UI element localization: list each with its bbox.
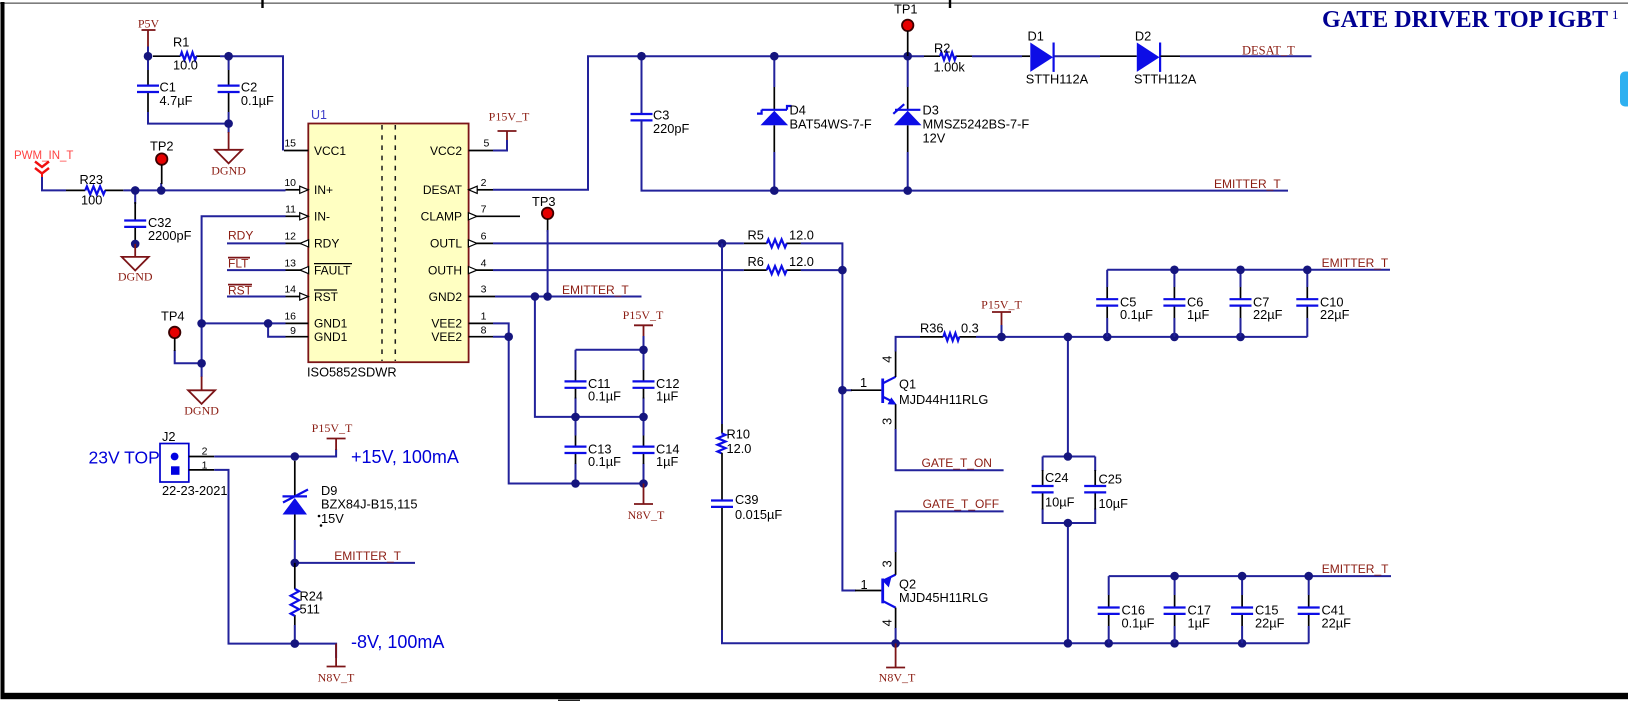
svg-text:0.1µF: 0.1µF — [1122, 616, 1155, 631]
svg-text:R36: R36 — [920, 321, 943, 336]
capacitor C10 22uF — [1296, 287, 1349, 322]
junction R5/R6 join — [838, 266, 847, 275]
svg-text:OUTL: OUTL — [430, 237, 462, 251]
svg-text:FAULT: FAULT — [314, 263, 351, 277]
svg-text:511: 511 — [300, 602, 320, 617]
svg-text:GATE DRIVER TOP IGBT: GATE DRIVER TOP IGBT — [1322, 7, 1608, 33]
wire P5V net — [148, 47, 283, 151]
svg-text:GATE_T_OFF: GATE_T_OFF — [923, 497, 999, 511]
svg-text:IN+: IN+ — [314, 183, 333, 197]
svg-text:EMITTER_T: EMITTER_T — [1322, 256, 1389, 270]
svg-text:7: 7 — [481, 204, 487, 216]
junction bottom rail C13 — [571, 479, 580, 488]
U1 pin 6 OUTL — [430, 231, 493, 251]
svg-text:10.0: 10.0 — [173, 58, 198, 73]
svg-text:0.1µF: 0.1µF — [241, 93, 274, 108]
svg-text:GND2: GND2 — [429, 290, 463, 304]
ground DGND under TP4 — [184, 377, 219, 418]
svg-text:DGND: DGND — [184, 404, 219, 418]
svg-text:P15V_T: P15V_T — [312, 421, 353, 435]
wire C11-C14 mid rail — [576, 417, 644, 484]
svg-text:220pF: 220pF — [653, 121, 689, 136]
svg-text:RDY: RDY — [314, 237, 339, 251]
svg-text:0.1µF: 0.1µF — [1120, 307, 1153, 322]
svg-text:J2: J2 — [162, 429, 176, 444]
wire Q1 emitter GATE_T_ON — [896, 429, 1004, 470]
svg-text:4: 4 — [880, 619, 895, 626]
svg-text:12: 12 — [284, 231, 296, 243]
resistor R36 0.3 — [920, 321, 979, 341]
svg-text:1: 1 — [1612, 7, 1619, 22]
wire IN-/GND1 net — [175, 216, 286, 377]
junction DESAT at D4 — [770, 52, 779, 61]
svg-text:3: 3 — [481, 284, 487, 296]
junction DESAT at C3 — [637, 52, 646, 61]
resistor R24 511 — [291, 563, 323, 625]
junction top bank C7 — [1236, 266, 1245, 275]
svg-text:11: 11 — [285, 204, 296, 216]
svg-text:1µF: 1µF — [656, 389, 678, 404]
wire GND2 EMITTER_T local — [495, 230, 642, 417]
capacitor C3 220pF — [631, 108, 690, 137]
svg-text:2: 2 — [202, 446, 208, 458]
svg-text:2200pF: 2200pF — [148, 228, 192, 243]
testpoint TP1 — [894, 2, 917, 57]
junction N8V at R24 — [291, 639, 300, 648]
svg-text:14: 14 — [284, 284, 296, 296]
wire D9 to EMITTER_T — [295, 540, 415, 563]
svg-text:5: 5 — [484, 138, 490, 150]
svg-text:1: 1 — [860, 375, 867, 390]
wire EMITTER_T rail top — [642, 120, 1289, 190]
svg-text:4.7µF: 4.7µF — [160, 93, 193, 108]
resistor R10 12.0 — [718, 424, 752, 456]
svg-text:R1: R1 — [173, 35, 189, 50]
capacitor C11 0.1uF — [565, 370, 622, 404]
diode D1 STTH112A — [1022, 29, 1089, 87]
J2 pin 2 — [189, 446, 214, 458]
junction P5V at C2/R1 — [224, 52, 233, 61]
svg-text:12.0: 12.0 — [789, 227, 814, 242]
U1 pin 14 RST — [284, 284, 338, 304]
power P15V_T at J2 — [312, 421, 353, 450]
svg-text:4: 4 — [880, 356, 895, 363]
svg-text:MJD45H11RLG: MJD45H11RLG — [899, 590, 988, 605]
svg-text:2: 2 — [481, 177, 487, 189]
junction OUTL at R10 — [718, 239, 727, 248]
svg-text:15: 15 — [284, 138, 296, 150]
wire C13-C14 bottom rail — [576, 483, 644, 485]
wire Q2 emitter — [895, 628, 897, 643]
net label FLT — [227, 256, 286, 270]
svg-text:RST: RST — [314, 290, 339, 304]
capacitor C1 4.7uF — [137, 70, 193, 112]
port PWM_IN_T — [14, 150, 73, 177]
testpoint TP2 — [150, 139, 173, 185]
svg-text:TP2: TP2 — [150, 139, 173, 154]
svg-text:GND1: GND1 — [314, 317, 348, 331]
junction Q1 base — [838, 386, 847, 395]
junction bottom bank C15 — [1238, 572, 1247, 581]
svg-text:22µF: 22µF — [1320, 307, 1350, 322]
svg-text:DGND: DGND — [211, 164, 246, 178]
svg-text:1µF: 1µF — [1188, 616, 1210, 631]
svg-text:C39: C39 — [735, 492, 758, 507]
junction rail at C15 — [1238, 639, 1247, 648]
svg-text:+15V, 100mA: +15V, 100mA — [351, 447, 459, 467]
wire DESAT net — [493, 56, 1312, 190]
svg-text:6: 6 — [481, 231, 487, 243]
junction EMITTER at D9/R24 — [291, 559, 300, 568]
U1 pin 7 CLAMP — [421, 204, 520, 224]
svg-text:Q1: Q1 — [899, 377, 916, 392]
svg-text:BZX84J-B15,115: BZX84J-B15,115 — [321, 497, 418, 512]
svg-text:RDY: RDY — [228, 229, 253, 243]
svg-text:IN-: IN- — [314, 210, 330, 224]
junction top bank C6 — [1170, 266, 1179, 275]
svg-text:P15V_T: P15V_T — [623, 308, 664, 322]
junction mid rail C12 — [639, 413, 648, 422]
svg-text:D3: D3 — [923, 103, 939, 118]
junction P5V at C1 — [144, 52, 153, 61]
U1 pin 9 GND1 — [286, 325, 348, 344]
svg-text:TP3: TP3 — [532, 194, 555, 209]
svg-text:DESAT: DESAT — [423, 183, 463, 197]
resistor R1 10.0 — [153, 35, 220, 73]
U1 pin 16 GND1 — [284, 311, 347, 331]
capacitor C41 22uF — [1298, 595, 1351, 631]
svg-text:16: 16 — [284, 311, 296, 323]
junction C1/C2 bottom — [224, 119, 233, 128]
svg-text:0.3: 0.3 — [961, 321, 979, 336]
svg-text:PWM_IN_T: PWM_IN_T — [14, 150, 73, 162]
svg-text:10µF: 10µF — [1045, 495, 1075, 510]
svg-text:1: 1 — [481, 311, 487, 323]
U1 pin 15 VCC1 — [284, 138, 346, 158]
svg-text:P15V_T: P15V_T — [489, 110, 530, 124]
testpoint TP4 — [161, 309, 184, 352]
power P5V — [138, 17, 160, 48]
svg-text:D4: D4 — [790, 103, 806, 118]
svg-text:STTH112A: STTH112A — [1134, 72, 1197, 87]
svg-text:9: 9 — [290, 325, 296, 337]
transistor Q2 MJD45H11RLG — [855, 552, 988, 629]
junction PWM at C32 — [131, 186, 140, 195]
junction EMITTER at D4 — [770, 186, 779, 195]
wire R10 column — [722, 243, 1309, 643]
U1 pin 13 FAULT — [284, 257, 352, 277]
junction rail at C24 drop — [1064, 333, 1073, 342]
capacitor C12 1uF — [633, 370, 680, 404]
ground DGND under C32 — [118, 240, 153, 284]
svg-text:1: 1 — [861, 577, 868, 592]
diode D2 STTH112A — [1100, 29, 1197, 87]
net label RST — [227, 283, 286, 297]
svg-text:R6: R6 — [748, 254, 764, 269]
junction rail at C6 — [1170, 333, 1179, 342]
junction GND1 pin9 branch — [264, 319, 273, 328]
junction GND2 TP3 — [543, 292, 552, 301]
U1 pin 11 IN- — [285, 204, 330, 224]
junction TP4 join — [197, 359, 206, 368]
wire OUTH net — [493, 270, 856, 590]
U1 pin 5 VCC2 — [430, 138, 493, 158]
svg-text:VEE2: VEE2 — [431, 330, 462, 344]
wire EMITTER_T bottom bank rail — [1109, 576, 1391, 643]
svg-text:STTH112A: STTH112A — [1026, 72, 1089, 87]
svg-text:R23: R23 — [80, 172, 103, 187]
svg-text:10µF: 10µF — [1099, 496, 1129, 511]
U1 pin 8 VEE2 — [431, 324, 493, 344]
diode D4 BAT54WS-7-F schottky — [757, 87, 872, 152]
transistor Q1 MJD44H11RLG — [851, 351, 988, 431]
ic U1 ISO5852SDWR body — [307, 108, 469, 380]
junction bottom bank C17 — [1170, 572, 1179, 581]
U1 pin 1 VEE2 — [431, 311, 493, 331]
wire Q2 collector GATE_T_OFF — [896, 511, 1004, 552]
testpoint TP3 — [532, 194, 555, 232]
wire VEE2 net — [493, 323, 576, 483]
svg-text:MJD44H11RLG: MJD44H11RLG — [899, 392, 988, 407]
svg-text:C25: C25 — [1099, 472, 1122, 487]
diode D9 BZX84J-B15,115 zener — [283, 461, 418, 540]
power P15V_T at VCC2 — [489, 110, 530, 142]
svg-text:1µF: 1µF — [1187, 307, 1209, 322]
wire PWM_IN_T net — [42, 177, 286, 244]
junction mid rail C11 — [571, 413, 580, 422]
svg-text:VCC2: VCC2 — [430, 144, 462, 158]
svg-text:CLAMP: CLAMP — [421, 210, 462, 224]
svg-text:4: 4 — [481, 257, 487, 269]
svg-text:P5V: P5V — [138, 17, 160, 31]
svg-text:DESAT_T: DESAT_T — [1242, 44, 1295, 58]
capacitor C5 0.1uF — [1096, 287, 1153, 322]
svg-text:N8V_T: N8V_T — [879, 671, 916, 685]
wire J2 pin2 P15V net — [214, 449, 336, 457]
capacitor C15 22uF — [1231, 595, 1285, 631]
svg-text:D2: D2 — [1135, 29, 1151, 44]
junction top bank C10 — [1303, 266, 1312, 275]
svg-text:1.00k: 1.00k — [934, 60, 966, 75]
capacitor C32 2200pF — [124, 202, 191, 243]
connector J2 22-23-2021 — [160, 429, 227, 498]
wire C24/C25 block — [1043, 457, 1096, 644]
resistor R2 1.00k — [924, 41, 972, 75]
svg-text:EMITTER_T: EMITTER_T — [1214, 177, 1281, 191]
junction GND2 drop — [531, 292, 540, 301]
wire P15V rail — [976, 325, 1307, 457]
svg-text:DGND: DGND — [118, 270, 153, 284]
junction D9 top — [291, 452, 300, 461]
capacitor C14 1uF — [633, 436, 680, 469]
resistor R23 100 — [66, 172, 123, 208]
capacitor C6 1uF — [1163, 287, 1209, 322]
svg-text:0.1µF: 0.1µF — [588, 389, 621, 404]
junction rail at C7 — [1236, 333, 1245, 342]
U1 pin 12 RDY — [284, 231, 339, 251]
junction C24 top — [1064, 452, 1073, 461]
junction bottom bank C41 — [1304, 572, 1313, 581]
capacitor C2 0.1uF — [218, 70, 274, 112]
svg-text:N8V_T: N8V_T — [628, 508, 665, 522]
resistor R5 12.0 — [744, 227, 814, 247]
svg-text:23V TOP: 23V TOP — [89, 448, 160, 468]
junction GND1 left — [197, 319, 206, 328]
wire Q1 collector — [896, 337, 920, 352]
svg-text:12.0: 12.0 — [727, 441, 752, 456]
svg-text:TP1: TP1 — [894, 2, 917, 17]
junction DESAT at D3/TP1 — [903, 52, 912, 61]
J2 pin 1 — [189, 459, 214, 471]
svg-text:D1: D1 — [1028, 29, 1044, 44]
capacitor C39 0.015uF — [711, 453, 782, 630]
svg-text:3: 3 — [880, 560, 895, 567]
power P15V_T at C12 — [623, 308, 664, 337]
capacitor C7 22uF — [1230, 287, 1283, 322]
svg-text:15V: 15V — [321, 511, 344, 526]
svg-text:13: 13 — [284, 257, 296, 269]
power P15V_T at R36 — [981, 298, 1022, 327]
svg-text:3: 3 — [880, 418, 895, 425]
svg-text:C24: C24 — [1045, 470, 1068, 485]
svg-text:U1: U1 — [311, 108, 327, 122]
wire OUTL net — [493, 243, 842, 270]
junction VEE2 pins — [504, 332, 513, 341]
wire VCC2 to P15V_T — [493, 140, 507, 151]
svg-text:OUTH: OUTH — [428, 263, 462, 277]
svg-text:VCC1: VCC1 — [314, 144, 346, 158]
svg-text:22µF: 22µF — [1255, 616, 1285, 631]
svg-text:P15V_T: P15V_T — [981, 298, 1022, 312]
diode D3 MMSZ5242BS-7-F zener — [893, 87, 1029, 152]
svg-text:TP4: TP4 — [161, 309, 184, 324]
junction EMITTER at D3 — [903, 186, 912, 195]
capacitor C25 10uF — [1084, 470, 1128, 511]
capacitor C24 10uF — [1032, 470, 1075, 510]
capacitor C13 0.1uF — [565, 436, 622, 469]
net label RDY — [227, 229, 286, 244]
svg-text:8: 8 — [481, 324, 487, 336]
wire EMITTER_T top bank rail — [1107, 270, 1390, 337]
svg-text:GATE_T_ON: GATE_T_ON — [922, 456, 992, 470]
svg-text:0.1µF: 0.1µF — [588, 454, 621, 469]
svg-text:R10: R10 — [727, 427, 750, 442]
svg-text:EMITTER_T: EMITTER_T — [334, 549, 401, 563]
junction rail at C5 — [1103, 333, 1112, 342]
ground DGND under C2 — [211, 132, 246, 178]
power N8V_T at J2 — [318, 644, 355, 685]
svg-text:22µF: 22µF — [1322, 616, 1352, 631]
U1 pin 10 IN+ — [284, 177, 333, 197]
U1 pin 2 DESAT — [423, 177, 493, 197]
resistor R6 12.0 — [744, 254, 814, 274]
svg-text:10: 10 — [284, 177, 296, 189]
junction C24 bottom — [1064, 519, 1073, 528]
junction Q2 emitter on rail — [891, 639, 900, 648]
capacitor C17 1uF — [1164, 595, 1211, 631]
svg-text:BAT54WS-7-F: BAT54WS-7-F — [790, 117, 872, 132]
svg-text:1µF: 1µF — [656, 454, 678, 469]
svg-text:N8V_T: N8V_T — [318, 671, 355, 685]
svg-text:ISO5852SDWR: ISO5852SDWR — [307, 365, 397, 380]
junction bottom rail C14 — [639, 479, 648, 488]
svg-text:0.015µF: 0.015µF — [735, 507, 782, 522]
svg-text:1: 1 — [202, 459, 208, 471]
wire J2 pin1 N8V net — [214, 470, 336, 658]
svg-text:-8V, 100mA: -8V, 100mA — [351, 632, 444, 652]
svg-text:EMITTER_T: EMITTER_T — [1322, 562, 1389, 576]
junction PWM at TP2 — [157, 186, 166, 195]
svg-text:22µF: 22µF — [1253, 307, 1283, 322]
power N8V_T at Q2 — [879, 643, 916, 684]
junction P15V drop — [997, 333, 1006, 342]
junction rail at C17 — [1170, 639, 1179, 648]
junction rail at C16 — [1104, 639, 1113, 648]
wire C11-C12 top rail — [576, 336, 644, 417]
U1 pin 4 OUTH — [428, 257, 493, 277]
U1 pin 3 GND2 — [429, 284, 495, 304]
svg-text:GND1: GND1 — [314, 330, 348, 344]
capacitor C16 0.1uF — [1098, 595, 1155, 631]
svg-text:EMITTER_T: EMITTER_T — [562, 283, 629, 297]
svg-text:MMSZ5242BS-7-F: MMSZ5242BS-7-F — [923, 117, 1030, 132]
svg-text:R5: R5 — [748, 227, 764, 242]
svg-text:VEE2: VEE2 — [431, 317, 462, 331]
junction rail at C24 drop bottom — [1064, 639, 1073, 648]
svg-text:12.0: 12.0 — [789, 254, 814, 269]
svg-text:12V: 12V — [923, 131, 946, 146]
power N8V_T at C14 — [628, 484, 665, 523]
junction P15V at C12 top — [639, 346, 648, 355]
svg-text:100: 100 — [81, 193, 102, 208]
svg-text:22-23-2021: 22-23-2021 — [162, 483, 227, 498]
svg-text:R2: R2 — [934, 41, 950, 56]
